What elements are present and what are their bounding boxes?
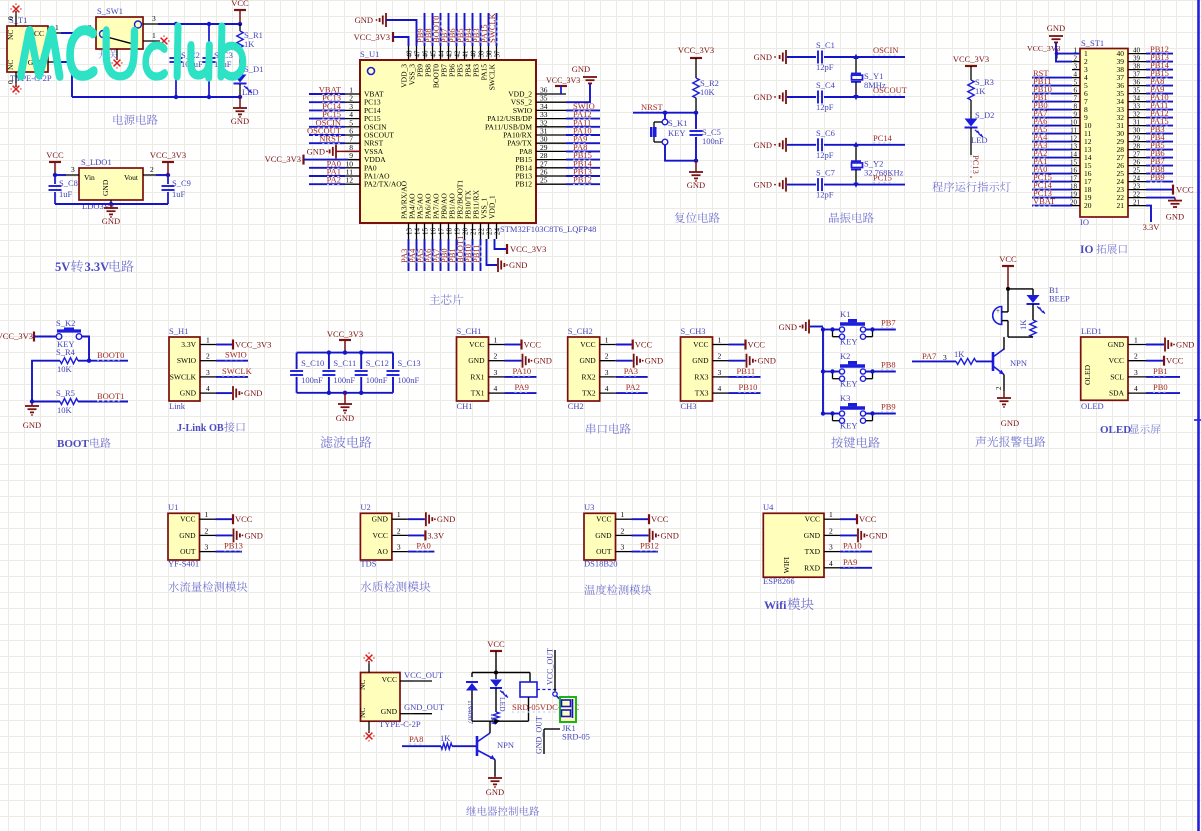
svg-text:12pF: 12pF <box>816 150 834 160</box>
svg-text:CH1: CH1 <box>457 401 473 411</box>
svg-text:2: 2 <box>621 526 625 535</box>
svg-text:OLED: OLED <box>1100 424 1131 436</box>
svg-text:35: 35 <box>1133 87 1141 95</box>
svg-text:23: 23 <box>1133 183 1141 191</box>
svg-text:2: 2 <box>718 352 722 361</box>
svg-text:GND: GND <box>486 787 504 797</box>
svg-text:VCC: VCC <box>1176 185 1194 195</box>
svg-text:PB13: PB13 <box>224 541 243 551</box>
svg-text:S_R5: S_R5 <box>56 388 75 398</box>
svg-text:22: 22 <box>477 228 485 236</box>
svg-text:100nF: 100nF <box>301 375 323 385</box>
svg-text:NPN: NPN <box>497 740 514 750</box>
svg-text:10K: 10K <box>57 364 73 374</box>
svg-text:1K: 1K <box>1018 319 1028 330</box>
svg-text:VDD_1: VDD_1 <box>488 195 497 219</box>
svg-text:1: 1 <box>205 510 209 519</box>
svg-text:1K: 1K <box>975 86 986 96</box>
svg-text:SCL: SCL <box>1110 372 1124 381</box>
svg-text:SWCLK: SWCLK <box>488 63 497 90</box>
svg-text:40: 40 <box>1133 47 1141 55</box>
svg-text:GND: GND <box>1108 340 1125 349</box>
svg-text:RX3: RX3 <box>694 372 708 381</box>
svg-text:BOOT1: BOOT1 <box>97 391 124 401</box>
svg-text:GND: GND <box>179 531 196 540</box>
svg-text:Vin: Vin <box>84 173 95 182</box>
svg-text:LED1: LED1 <box>1081 326 1102 336</box>
svg-text:2: 2 <box>205 526 209 535</box>
svg-text:GND: GND <box>754 140 772 150</box>
svg-text:GND: GND <box>468 356 485 365</box>
svg-text:8: 8 <box>1074 103 1078 111</box>
svg-text:1: 1 <box>1134 336 1138 345</box>
svg-text:PB12: PB12 <box>573 175 592 185</box>
svg-text:VCC: VCC <box>999 254 1017 264</box>
svg-text:GND: GND <box>758 356 776 366</box>
svg-text:GND: GND <box>572 64 590 74</box>
svg-text:S_LDO1: S_LDO1 <box>81 157 112 167</box>
svg-text:S_K2: S_K2 <box>56 318 75 328</box>
svg-text:GND: GND <box>1001 418 1019 428</box>
svg-text:PC14: PC14 <box>873 133 893 143</box>
svg-text:S_C1: S_C1 <box>816 40 835 50</box>
svg-text:1: 1 <box>718 336 722 345</box>
svg-text:100nF: 100nF <box>366 375 388 385</box>
svg-text:32: 32 <box>1133 111 1141 119</box>
svg-text:BOOT: BOOT <box>57 438 89 450</box>
svg-text:VCC: VCC <box>235 514 253 524</box>
svg-text:S_U1: S_U1 <box>360 49 379 59</box>
svg-text:25: 25 <box>540 176 548 185</box>
svg-text:GND: GND <box>579 356 596 365</box>
svg-text:PC13: PC13 <box>971 155 981 174</box>
svg-text:OSCIN: OSCIN <box>873 45 899 55</box>
svg-text:KEY: KEY <box>668 128 685 138</box>
svg-text:VCC_3V3: VCC_3V3 <box>0 331 33 341</box>
svg-text:PA2: PA2 <box>327 175 341 185</box>
svg-text:GND: GND <box>231 116 249 126</box>
svg-text:20: 20 <box>1084 201 1092 210</box>
svg-text:Wifi: Wifi <box>764 598 787 612</box>
svg-text:SWIO: SWIO <box>177 356 197 365</box>
svg-text:GND: GND <box>307 146 325 156</box>
svg-text:NC: NC <box>6 60 15 70</box>
svg-text:VCC: VCC <box>635 340 653 350</box>
svg-text:PA9: PA9 <box>515 382 529 392</box>
svg-text:S_R4: S_R4 <box>56 347 76 357</box>
svg-text:GND: GND <box>692 356 709 365</box>
svg-text:TYPE-C-2P: TYPE-C-2P <box>379 719 421 729</box>
svg-text:100nF: 100nF <box>333 375 355 385</box>
svg-text:PB7: PB7 <box>881 318 896 328</box>
svg-text:GND_OUT: GND_OUT <box>404 702 445 712</box>
svg-text:Link: Link <box>169 401 186 411</box>
svg-text:NC: NC <box>358 708 367 718</box>
svg-text:VCC_3V3: VCC_3V3 <box>327 329 363 339</box>
svg-text:VCC: VCC <box>469 340 484 349</box>
svg-text:4: 4 <box>1134 384 1138 393</box>
svg-text:3.3V: 3.3V <box>427 530 445 540</box>
svg-text:GND: GND <box>509 260 527 270</box>
svg-text:U4: U4 <box>763 502 774 512</box>
svg-text:2: 2 <box>829 526 833 535</box>
svg-text:2: 2 <box>995 386 1003 390</box>
svg-text:2: 2 <box>150 165 154 174</box>
svg-text:2: 2 <box>1134 352 1138 361</box>
svg-text:OUT: OUT <box>596 547 612 556</box>
svg-text:GND: GND <box>102 216 120 226</box>
svg-text:16: 16 <box>429 228 437 236</box>
svg-text:27: 27 <box>1133 151 1141 159</box>
svg-text:3: 3 <box>397 543 401 552</box>
svg-text:PB12: PB12 <box>640 541 659 551</box>
svg-text:PA9: PA9 <box>843 557 857 567</box>
svg-text:GND: GND <box>381 707 398 716</box>
svg-text:VCC_3V3: VCC_3V3 <box>354 32 390 42</box>
svg-text:PB9: PB9 <box>881 402 896 412</box>
svg-text:14: 14 <box>413 228 421 236</box>
svg-text:GND: GND <box>779 322 797 332</box>
svg-text:GND: GND <box>534 356 552 366</box>
svg-text:K3: K3 <box>840 393 850 403</box>
svg-text:KEY: KEY <box>840 337 857 347</box>
svg-text:3: 3 <box>152 14 156 23</box>
svg-text:GND: GND <box>804 531 821 540</box>
svg-text:S_C7: S_C7 <box>816 168 835 178</box>
svg-text:VCC: VCC <box>231 0 249 8</box>
svg-text:VCC_3V3: VCC_3V3 <box>150 150 186 160</box>
svg-text:S_C11: S_C11 <box>333 358 356 368</box>
svg-text:Vout: Vout <box>124 173 139 182</box>
svg-text:PA10: PA10 <box>843 541 862 551</box>
svg-text:K1: K1 <box>840 309 850 319</box>
svg-text:3.3V: 3.3V <box>1143 222 1161 232</box>
svg-text:22: 22 <box>1133 191 1141 199</box>
svg-text:4: 4 <box>718 384 722 393</box>
svg-text:KEY: KEY <box>840 379 857 389</box>
svg-text:37: 37 <box>493 50 501 58</box>
svg-text:OLED: OLED <box>1081 401 1104 411</box>
svg-text:PA8: PA8 <box>409 734 423 744</box>
svg-text:VCC: VCC <box>524 340 542 350</box>
svg-text:100nF: 100nF <box>398 375 420 385</box>
svg-text:PB12: PB12 <box>515 180 532 189</box>
svg-text:38: 38 <box>485 50 493 58</box>
svg-text:VCC_3V3: VCC_3V3 <box>546 76 580 85</box>
svg-text:37: 37 <box>1133 71 1141 79</box>
svg-text:NRST: NRST <box>319 134 342 144</box>
svg-text:3: 3 <box>605 368 609 377</box>
svg-text:PA2/TX/AO: PA2/TX/AO <box>364 180 402 189</box>
svg-text:S_CH2: S_CH2 <box>568 326 593 336</box>
svg-text:46: 46 <box>421 50 429 58</box>
svg-text:GND: GND <box>645 356 663 366</box>
svg-text:47: 47 <box>413 50 421 58</box>
svg-text:NPN: NPN <box>1010 358 1027 368</box>
svg-text:SDA: SDA <box>1109 389 1125 398</box>
svg-text:GND: GND <box>23 420 41 430</box>
svg-text:PB0: PB0 <box>1153 382 1168 392</box>
svg-text:3: 3 <box>205 543 209 552</box>
svg-text:GND: GND <box>754 180 772 190</box>
svg-text:43: 43 <box>445 50 453 58</box>
svg-text:AO: AO <box>377 547 388 556</box>
svg-text:S_SW1: S_SW1 <box>97 6 123 16</box>
svg-text:S_K1: S_K1 <box>668 118 687 128</box>
svg-text:WIFI: WIFI <box>782 557 791 574</box>
svg-text:3: 3 <box>206 368 210 377</box>
svg-text:GND: GND <box>1176 340 1194 350</box>
svg-text:21: 21 <box>1133 199 1141 207</box>
svg-text:VCC: VCC <box>748 340 766 350</box>
svg-text:RXD: RXD <box>804 563 820 572</box>
svg-text:25: 25 <box>1133 167 1141 175</box>
svg-text:S_CH3: S_CH3 <box>681 326 706 336</box>
svg-text:S_CH1: S_CH1 <box>457 326 482 336</box>
svg-text:TDS: TDS <box>360 559 376 569</box>
svg-text:GND: GND <box>180 389 197 398</box>
svg-text:K2: K2 <box>840 351 850 361</box>
svg-text:RX2: RX2 <box>582 372 596 381</box>
svg-text:VCC: VCC <box>580 340 595 349</box>
svg-text:23: 23 <box>485 228 493 236</box>
svg-text:3: 3 <box>1134 368 1138 377</box>
svg-text:VCC_3V3: VCC_3V3 <box>235 340 271 350</box>
svg-text:0: 0 <box>6 80 15 84</box>
svg-text:+: + <box>996 307 1000 315</box>
svg-text:DS18B20: DS18B20 <box>584 559 618 569</box>
svg-text:32.768KHz: 32.768KHz <box>864 168 904 178</box>
svg-text:3.3V: 3.3V <box>85 260 110 274</box>
svg-text:39: 39 <box>1133 55 1141 63</box>
svg-text:1: 1 <box>206 336 210 345</box>
svg-text:10K: 10K <box>57 405 73 415</box>
svg-text:3: 3 <box>621 543 625 552</box>
svg-text:GND: GND <box>869 530 887 540</box>
svg-text:CH2: CH2 <box>568 401 584 411</box>
svg-text:31: 31 <box>1133 119 1141 127</box>
svg-text:BEEP: BEEP <box>1049 294 1070 304</box>
svg-text:LED: LED <box>498 697 507 712</box>
svg-text:VCC: VCC <box>859 514 877 524</box>
svg-text:VCC_3V3: VCC_3V3 <box>953 54 989 64</box>
svg-text:GND: GND <box>754 52 772 62</box>
svg-text:NC: NC <box>358 680 367 690</box>
svg-text:7: 7 <box>1074 95 1078 103</box>
svg-text:1: 1 <box>621 510 625 519</box>
svg-text:GND: GND <box>437 514 455 524</box>
svg-text:SWIO: SWIO <box>225 350 247 360</box>
svg-text:VCC: VCC <box>596 515 611 524</box>
svg-text:4: 4 <box>1074 71 1078 79</box>
svg-text:OLED: OLED <box>1083 364 1092 385</box>
svg-text:24: 24 <box>493 228 501 236</box>
svg-text:PB1: PB1 <box>1153 366 1168 376</box>
svg-text:5: 5 <box>1074 79 1078 87</box>
svg-text:44: 44 <box>437 50 445 58</box>
svg-text:GND: GND <box>336 413 354 423</box>
svg-text:GND: GND <box>244 388 262 398</box>
svg-text:VCC: VCC <box>651 514 669 524</box>
svg-text:12: 12 <box>346 176 354 185</box>
svg-text:GND: GND <box>661 530 679 540</box>
svg-text:GND_OUT: GND_OUT <box>535 716 544 754</box>
svg-text:S_C13: S_C13 <box>398 358 421 368</box>
svg-text:3: 3 <box>494 368 498 377</box>
svg-text:PA10: PA10 <box>513 366 532 376</box>
svg-text:VCC: VCC <box>382 675 397 684</box>
svg-text:VCC: VCC <box>1166 356 1184 366</box>
svg-text:SWCLK: SWCLK <box>487 12 497 43</box>
svg-text:41: 41 <box>461 50 469 58</box>
svg-text:GND: GND <box>1047 23 1065 33</box>
svg-text:TX1: TX1 <box>471 389 485 398</box>
svg-text:PA2: PA2 <box>626 382 640 392</box>
svg-text:PB11: PB11 <box>737 366 756 376</box>
svg-text:2: 2 <box>1074 55 1078 63</box>
svg-text:1K: 1K <box>440 733 451 743</box>
svg-text:10K: 10K <box>700 87 716 97</box>
svg-text:8MHz: 8MHz <box>864 80 886 90</box>
svg-text:4: 4 <box>605 384 609 393</box>
svg-text:1: 1 <box>152 31 156 40</box>
svg-text:9: 9 <box>1074 111 1078 119</box>
svg-text:KEY: KEY <box>840 421 857 431</box>
svg-text:VCC: VCC <box>693 340 708 349</box>
svg-text:VCC: VCC <box>46 150 64 160</box>
svg-text:20: 20 <box>461 228 469 236</box>
svg-text:PA7: PA7 <box>922 351 936 361</box>
svg-text:ESP8266: ESP8266 <box>763 576 795 586</box>
svg-text:6: 6 <box>1074 87 1078 95</box>
svg-text:4: 4 <box>829 559 833 568</box>
svg-text:VCC_OUT: VCC_OUT <box>546 648 555 685</box>
svg-text:34: 34 <box>1133 95 1141 103</box>
svg-text:STM32F103C8T6_LQFP48: STM32F103C8T6_LQFP48 <box>500 224 596 234</box>
svg-text:12pF: 12pF <box>816 102 834 112</box>
svg-text:28: 28 <box>1133 143 1141 151</box>
svg-text:0: 0 <box>6 16 15 20</box>
svg-text:19: 19 <box>453 228 461 236</box>
svg-text:GND: GND <box>245 530 263 540</box>
svg-text:TXD: TXD <box>805 547 821 556</box>
svg-text:1: 1 <box>397 510 401 519</box>
svg-text:33: 33 <box>1133 103 1141 111</box>
svg-text:29: 29 <box>1133 135 1141 143</box>
svg-text:PB11: PB11 <box>471 244 481 263</box>
svg-text:VCC_3V3: VCC_3V3 <box>265 154 301 164</box>
svg-text:S_D2: S_D2 <box>975 110 994 120</box>
svg-text:2: 2 <box>494 352 498 361</box>
svg-text:IO: IO <box>1080 244 1093 256</box>
svg-text:PA3: PA3 <box>624 366 638 376</box>
svg-text:45: 45 <box>429 50 437 58</box>
svg-text:TX3: TX3 <box>695 389 709 398</box>
svg-text:1: 1 <box>494 336 498 345</box>
svg-text:SRD-05: SRD-05 <box>562 732 590 742</box>
svg-text:BOOT0: BOOT0 <box>97 350 124 360</box>
svg-text:S_D1: S_D1 <box>244 64 263 74</box>
svg-text:GND: GND <box>1166 212 1184 222</box>
svg-text:3: 3 <box>1074 63 1078 71</box>
svg-text:LED: LED <box>971 135 988 145</box>
svg-text:VCC_3V3: VCC_3V3 <box>510 244 546 254</box>
svg-text:5V: 5V <box>55 260 70 274</box>
svg-text:100nF: 100nF <box>702 136 724 146</box>
svg-text:J-Link OB: J-Link OB <box>177 423 224 434</box>
svg-text:TX2: TX2 <box>582 389 596 398</box>
svg-text:VCC: VCC <box>805 515 820 524</box>
svg-text:21: 21 <box>1117 201 1125 210</box>
svg-text:S_C6: S_C6 <box>816 128 835 138</box>
svg-text:PB9: PB9 <box>1150 172 1165 182</box>
svg-text:S_H1: S_H1 <box>169 326 188 336</box>
svg-text:1uF: 1uF <box>172 189 186 199</box>
svg-text:48: 48 <box>405 50 413 58</box>
svg-text:1K: 1K <box>244 39 255 49</box>
svg-text:S_C4: S_C4 <box>816 80 836 90</box>
svg-text:U1: U1 <box>168 502 178 512</box>
svg-text:3.3V: 3.3V <box>181 340 196 349</box>
svg-text:4: 4 <box>206 384 210 393</box>
svg-text:CH3: CH3 <box>681 401 697 411</box>
svg-text:RX1: RX1 <box>470 372 484 381</box>
svg-text:VBAT: VBAT <box>1033 196 1056 206</box>
svg-text:VCC: VCC <box>487 639 505 649</box>
svg-text:26: 26 <box>1133 159 1141 167</box>
svg-text:2: 2 <box>605 352 609 361</box>
svg-text:VCC: VCC <box>180 515 195 524</box>
svg-text:39: 39 <box>477 50 485 58</box>
svg-text:GND: GND <box>355 15 373 25</box>
svg-text:12pF: 12pF <box>816 190 834 200</box>
svg-text:IO: IO <box>1080 217 1089 227</box>
svg-text:PB10: PB10 <box>739 382 758 392</box>
svg-text:LDO3V3: LDO3V3 <box>82 201 114 211</box>
svg-text:VCC: VCC <box>1109 356 1124 365</box>
svg-text:GND: GND <box>101 179 110 196</box>
svg-text:PA0: PA0 <box>416 541 430 551</box>
svg-text:1: 1 <box>829 510 833 519</box>
svg-text:3: 3 <box>718 368 722 377</box>
svg-text:VCC_3V3: VCC_3V3 <box>678 45 714 55</box>
svg-text:GND: GND <box>595 531 612 540</box>
svg-text:NRST: NRST <box>641 102 664 112</box>
svg-text:S_C12: S_C12 <box>366 358 389 368</box>
svg-text:17: 17 <box>437 228 445 236</box>
svg-text:U2: U2 <box>360 502 370 512</box>
svg-text:S_ST1: S_ST1 <box>1081 38 1104 48</box>
svg-text:S_C8: S_C8 <box>59 178 78 188</box>
svg-text:4: 4 <box>494 384 498 393</box>
svg-text:OUT: OUT <box>180 547 196 556</box>
svg-text:PB8: PB8 <box>881 360 896 370</box>
svg-text:YF-S401: YF-S401 <box>168 559 199 569</box>
svg-text:36: 36 <box>1133 79 1141 87</box>
svg-text:13: 13 <box>405 228 413 236</box>
svg-text:GND: GND <box>754 92 772 102</box>
svg-text:30: 30 <box>1133 127 1141 135</box>
svg-text:S_C10: S_C10 <box>301 358 324 368</box>
svg-text:VCC: VCC <box>372 531 387 540</box>
svg-text:18: 18 <box>445 228 453 236</box>
svg-text:3: 3 <box>71 165 75 174</box>
svg-text:SWCLK: SWCLK <box>170 372 197 381</box>
svg-text:12pF: 12pF <box>816 62 834 72</box>
svg-text:VCC_OUT: VCC_OUT <box>404 670 444 680</box>
svg-text:2: 2 <box>397 526 401 535</box>
svg-text:2: 2 <box>206 352 210 361</box>
